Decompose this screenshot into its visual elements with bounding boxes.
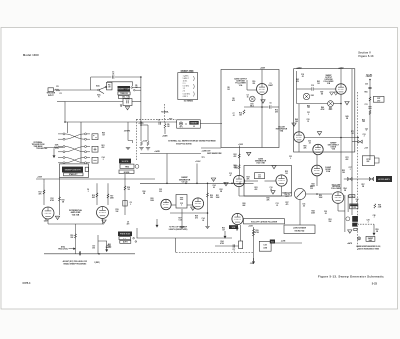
wire divider [107,183,109,205]
resistor R3 [54,147,59,149]
resistor box R4 [107,82,113,90]
panel label SWEEP LENGTH [62,167,83,173]
tube V1A gate output cathode follower [257,84,268,95]
test point on output run [317,132,321,136]
svg-text:CRT: CRT [377,98,380,100]
svg-text:S2E: S2E [232,227,236,229]
wire vertical branch [64,102,66,123]
tube V6B hold-off cathode follower [332,192,344,204]
ground R10A [139,148,143,150]
box R73 network [362,156,374,166]
svg-text:X1 X5: X1 X5 [352,207,356,209]
lamp DS4 [357,237,360,240]
ground below V5 [205,227,209,229]
svg-text:+GATE: +GATE [162,135,168,138]
wire R73 loop [374,158,379,163]
component box C11 [255,173,265,179]
wire integrator cathode [298,142,300,152]
wire cathode run [170,212,208,214]
svg-text:TP3: TP3 [202,157,205,159]
wire C1 to node [115,76,141,78]
test point magnifier [348,230,352,234]
wire CRT column [369,80,371,161]
svg-text:C25220: C25220 [159,189,162,193]
switch rotor circle [135,165,139,169]
test point gate gen lower [271,191,275,195]
wire to C6 [262,106,269,108]
test point gate gen feed [247,152,251,156]
switch shaft line [80,122,82,163]
junction on +100V bus [196,183,198,185]
svg-text:C26: C26 [350,196,353,198]
label box sweep mag [366,236,375,241]
svg-text:C9470: C9470 [127,222,130,226]
junction CRT column top [369,79,371,81]
neon lamp DS1 [250,96,256,102]
output circle sweep volts out [294,188,305,199]
svg-text:STABILITY: STABILITY [69,173,78,176]
svg-text:NORM: NORM [124,172,130,174]
panel label TRIGGER SLOPE [119,159,131,164]
svg-text:C6: C6 [269,103,271,105]
switch wafer S2D [58,157,90,164]
wire +225V drop to V1A [261,70,263,84]
wire V1B cathode down [340,94,342,120]
label box CRT circuit [373,96,384,102]
wire R21 loop [98,241,107,248]
svg-text:NORMAL: NORMAL [161,111,168,114]
resistor R17 [107,194,109,199]
svg-text:5-23: 5-23 [372,282,378,286]
capacitor C3 [127,100,128,103]
tube V2B differential amplifier [97,207,109,219]
svg-text:R37470: R37470 [286,202,289,206]
arrow trig level [69,248,76,250]
wire sawtooth to hold-off [306,193,333,195]
wire DS2 to cathode [333,103,341,105]
box line sync [259,241,271,251]
wire free-run bus [137,237,232,239]
resistor R68 [369,110,371,115]
wafer terminal box S2C [92,146,98,152]
wire V3A plate feed [238,146,240,176]
junction V1B cathode [340,103,342,105]
jack horizontal amplifier [369,178,373,181]
resistor R39b [252,232,254,237]
svg-text:TO CRTCIRCUIT: TO CRTCIRCUIT [366,74,372,78]
test point TP V2B [102,220,106,224]
svg-text:C16.05: C16.05 [302,204,305,208]
wire ext trigger to wafer [44,147,63,149]
svg-text:CKT: CKT [377,100,380,102]
svg-text:+100V: +100V [195,161,201,163]
wire cathode left [244,106,262,108]
wire lower bus [44,253,135,255]
arrow -100V [253,258,255,264]
arrow gang [373,224,375,235]
jack sweep output [358,140,362,143]
ground below box [180,227,184,229]
tube V5 sweep generator [192,198,203,209]
neon lamp DS2 [328,101,334,107]
wire box B left feed [296,71,298,104]
wire clamp down [316,176,318,186]
wire to V3B grid [265,180,276,182]
capacitor C5 [159,122,160,125]
tube V8A sweep disconnect diode [313,144,323,154]
sweep output section box [294,69,355,152]
wire V5 plate drop [207,183,209,226]
svg-text:+225V: +225V [338,67,344,69]
wire drop to dashed link [175,238,177,253]
wire magnifier column [344,195,346,232]
wire disconnect to clamp [316,155,318,165]
wire line sync out [275,242,302,244]
resistor R1 [55,89,60,91]
label box C26 [349,195,355,198]
wire magnifier column 2 [347,195,349,212]
resistor R58 [374,204,376,209]
resistor R22 plate [238,154,240,159]
wire cathode bus [48,223,104,225]
box low resistance divider [284,225,315,234]
resistor R15 [58,197,60,202]
dashed boundary [357,92,359,250]
wire V3A cathode [238,187,240,196]
bus +100V center [140,182,246,184]
wire CR1 feed [240,225,242,241]
junction cathode run [207,212,209,214]
resistor R19 [74,234,76,239]
wire hold-off to magnifier [338,210,345,212]
tube V3B gate generator [276,175,287,186]
svg-text:C19: C19 [311,85,314,87]
switch gang dashed horizontal [136,118,176,120]
wafer S2B box dots [93,135,96,138]
arrow sweep length to grid [156,219,158,227]
svg-text:C31: C31 [365,104,368,106]
test point left of V3A [211,178,215,182]
wire trigger input to S2A [54,89,98,91]
wire vertical to sweep bus [140,77,142,122]
component box CR1 [239,241,243,249]
panel label norm box [119,170,134,174]
wire C19 to V1B [314,88,336,90]
wire V4 to box [171,204,176,206]
panel label TIME/CM box [118,92,130,95]
junction on +100V bus [239,183,241,185]
wire V6A cathode down [237,225,239,228]
svg-text:SWEEP: SWEEP [368,238,373,240]
svg-text:TP1: TP1 [180,126,183,128]
junction on +100V bus [166,183,168,185]
wire bus tie [43,179,45,183]
svg-text:C075-4: C075-4 [23,282,32,285]
junction output run at V1B column [340,137,342,139]
tube V2A differential amplifier [42,207,54,219]
svg-text:+225V: +225V [260,67,266,69]
svg-text:DS2NE-2: DS2NE-2 [329,108,333,112]
svg-text:C1.01: C1.01 [112,71,115,75]
junction on +100V bus [185,183,187,185]
svg-text:C10470: C10470 [92,246,95,250]
wire C1 branch vertical [90,77,92,90]
connector J1 trigger input [48,88,54,92]
svg-text:SWEEP: SWEEP [190,123,198,125]
wire R10B drop [147,125,149,141]
wire bus to wafer S2B [66,122,68,133]
wire V2A plate feed [43,183,45,205]
svg-text:HOLD-OFFCATHODEFOLLOWER: HOLD-OFFCATHODEFOLLOWER [331,184,341,190]
wire divider hook [128,141,133,144]
wire switch loop top [107,81,133,83]
resistor R23 plate [238,165,240,170]
panel label sweep length lower box [64,173,84,176]
wire between jacks [352,178,369,180]
panel label FREE RUN [118,232,132,237]
panel label plus box [119,237,131,240]
output connector box [177,120,201,128]
legend brackets [193,76,196,97]
panel label CAL box [118,96,129,99]
wire grid feed V1A [247,89,257,91]
feedback box C15 [176,195,187,209]
wire lower trigger path [65,101,123,103]
wire V1B cathode to hold-off [340,120,342,192]
sweep length group box [60,164,89,178]
wire to jack hold-off [344,178,347,180]
svg-text:Figure 5-13. Sweep Generator: Figure 5-13. Sweep Generator Schematic [318,274,384,278]
panel label trigger box [120,164,134,168]
wire sawtooth down [299,200,301,225]
junction on +100V bus [224,183,226,185]
wafer terminal box S2B [92,134,98,140]
resistor R14 [243,110,245,115]
wire sweep trigger bus [65,121,177,123]
wire sweep length to grid [59,177,61,215]
test jack TP1 [179,122,182,125]
test point at bus end [224,183,228,187]
wire box to V5 [187,204,193,206]
legend table box [178,73,198,100]
wire V1A cathode down [261,95,263,148]
wire +225V drop V1B [340,69,342,84]
svg-text:C11220: C11220 [258,175,261,179]
junction clamp at sawtooth wire [316,193,318,195]
wafer S2D box mark [93,159,96,161]
label box to horiz ampl [376,176,392,182]
panel label MAG lower [352,223,357,227]
tube V9A integrator [294,132,305,143]
svg-text:TIME/CM: TIME/CM [120,93,128,95]
wire integrator output run [304,137,358,139]
capacitor C17 [233,244,234,247]
test point V1A cathode [261,100,265,104]
wafer S2C box plus [94,148,97,151]
junction on +100V bus [207,183,209,185]
wire -100V drop [253,227,255,261]
svg-text:+ –: + – [123,238,126,240]
junction on +100V bus [231,183,233,185]
switch wafer S2B [58,133,90,140]
rotor magnifier [346,217,350,221]
svg-text:+100V: +100V [37,177,43,179]
wire inside box [246,80,248,90]
wire to C19 [297,88,312,90]
resistor R9 [164,124,166,129]
wire R9 down [164,128,166,134]
svg-text:HORIZ AMPL: HORIZ AMPL [378,178,391,181]
label MAGNIFIER bar [350,204,357,206]
rotor contacts free run [133,237,137,242]
test point pair V1B [330,92,338,95]
component box C8 [123,201,127,207]
label box hold-off cathode follower [244,219,285,224]
junction lower bus [98,253,100,255]
wire stub [57,101,65,103]
svg-text:Figure 5-13: Figure 5-13 [359,55,374,58]
svg-text:C2: C2 [59,93,61,95]
wire gate gen cathode bus [239,195,282,197]
wire V2A cathode [47,219,49,224]
test point integrator [292,123,296,127]
tube V3A gate generator [233,175,244,186]
svg-text:TRIG: TRIG [125,166,130,168]
svg-text:1 (REF): 1 (REF) [94,262,100,264]
svg-text:Model 130C: Model 130C [23,53,39,57]
wire right section boundary [351,69,353,215]
svg-text:+225V: +225V [296,67,302,69]
junction branch [64,121,66,123]
svg-text:J2: J2 [193,126,195,128]
switch gang dashed vertical [135,119,137,160]
switch wafer S2C [58,146,90,153]
capacitor C31 [368,107,371,108]
wire cathode bus V1B [297,103,328,105]
junction C1 node [140,76,142,78]
svg-text:R28470: R28470 [195,216,198,220]
capacitor C19 [312,87,313,90]
arrow into sweep section [53,148,55,157]
dashed gang to R58 [358,223,375,225]
wire integrator plate [298,104,300,132]
junction V1A cathode [261,106,263,108]
resistor R30 [206,193,208,198]
capacitor C30 [368,87,371,88]
bus +100V left [36,178,155,180]
test point below C3 [125,107,129,111]
panel label MAG switch [352,216,358,222]
svg-text:S2 VIEWED: S2 VIEWED [184,100,194,102]
capacitor C9 inline [79,252,80,255]
svg-text:LOW-R DIVIDER: LOW-R DIVIDER [293,228,307,230]
junction output column [357,137,359,139]
wire bus to gate box [246,182,254,184]
arrow R21 to -100V [106,248,108,252]
terminal box magnifier [354,228,357,230]
svg-text:C215: C215 [120,104,122,108]
ground divider [126,147,130,149]
wire stability divider [124,174,126,215]
wire V3B cathode [281,186,283,196]
trimmer box C3 [123,99,132,106]
sweep length terminal box [85,167,88,171]
svg-text:C30: C30 [365,84,368,86]
jack hold-off output [348,178,352,181]
wire +100V drop [196,164,198,184]
resistor R67 [369,97,371,102]
svg-text:LINE: LINE [263,247,267,249]
wire TP box to gate section [200,123,222,125]
switch S2A contacts [98,86,107,94]
wire to R10B [141,124,148,126]
svg-text:C7.01: C7.01 [232,113,234,117]
wire grid return [181,209,183,226]
wire stack feed [136,228,138,238]
svg-text:SWEEP LENGTH: SWEEP LENGTH [65,169,81,171]
wire gate feed to section box [201,147,221,149]
wire C3 to node [132,101,141,103]
wire divider branch [127,122,129,141]
neon lamp DS3 [303,93,309,99]
junction timing [140,124,142,126]
resistor R16 [96,193,98,198]
panel label magnifier box [350,204,358,209]
junction bus [140,121,142,123]
dashed gang line lower [176,252,254,254]
svg-text:+GATE: +GATE [154,150,160,153]
wire V2B cathode [102,219,104,225]
svg-text:+100V: +100V [238,144,244,146]
svg-text:DS3: DS3 [311,95,314,97]
gate generator section box [244,166,292,197]
capacitor C15 [180,198,183,199]
tube V6A hold-off diode [232,213,243,224]
arrow R33 [224,231,226,238]
resistor R10B [147,141,149,146]
wire cathode to trig level [75,224,77,254]
wire to R9 [164,122,166,124]
wafer terminal box S2D [92,157,98,163]
wire timing resistor feed [140,122,142,141]
svg-text:R1: R1 [56,86,58,88]
svg-text:R10220: R10220 [252,81,255,85]
wire C10 branch [97,235,99,254]
wire +GATE line [140,153,201,155]
svg-text:FREE RUN: FREE RUN [120,234,131,236]
legend title underline [181,71,194,73]
wire hold-off cathode down [337,203,339,211]
switch gang dashed link [164,104,166,122]
svg-text:+LINE: +LINE [281,240,286,242]
svg-text:SLOPE: SLOPE [122,161,129,163]
svg-text:SWEEP TIME: SWEEP TIME [118,89,131,91]
label SWEEP PULSE [189,121,198,125]
test point TP V2A [55,216,59,220]
svg-text:TRIGGER SEL: TRIGGER SEL [36,148,47,150]
svg-text:C5: C5 [158,120,160,122]
switch contacts right of stack [131,87,141,91]
label box S2E [229,225,238,229]
test point gate gen top [272,166,276,170]
wire V3A to V3B [245,180,258,182]
wire to jack [352,141,358,143]
wire to C1 [91,76,112,78]
tube V10A clamp diode [312,165,323,176]
wire C6 out [272,106,279,108]
resistor R10A [140,141,142,146]
panel label auto box [120,240,131,243]
